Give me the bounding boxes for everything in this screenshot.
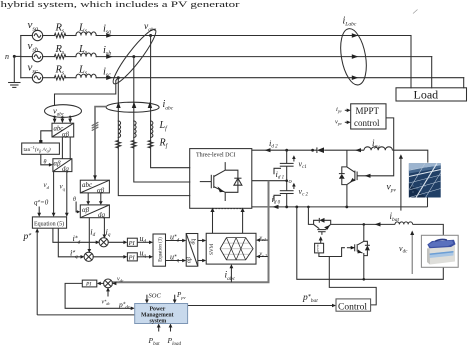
PV panel image — [409, 163, 441, 197]
load drop b — [431, 57, 433, 88]
node dot phase c — [117, 76, 120, 79]
svg-text:Management: Management — [141, 313, 174, 319]
measurement pair v_dc (gray) — [112, 181, 269, 283]
arrow up line a — [148, 102, 153, 108]
inductor L_s phase b — [76, 53, 432, 57]
wire to battery top — [413, 224, 444, 235]
wire i_d — [88, 218, 90, 251]
node n — [13, 55, 21, 58]
inductor L_f line c — [118, 121, 120, 137]
arrow v_pv — [399, 154, 403, 210]
load drop a — [410, 36, 412, 88]
block alphabeta/dq #2 — [80, 205, 109, 218]
arrow i_bat — [375, 222, 381, 226]
battery IGBT Q_b1 — [314, 224, 331, 234]
svg-text:vc1: vc1 — [260, 235, 266, 242]
block Equation (5) — [32, 217, 66, 228]
wire driver to control bus — [319, 248, 345, 257]
wire v_d — [53, 172, 55, 215]
svg-text:MPPT: MPPT — [356, 106, 380, 116]
arrow i_Lb — [352, 54, 359, 59]
connectors abc1 to dq1 — [61, 137, 63, 159]
wire battery bottom rail — [297, 207, 444, 279]
wire sum1 to PI1 — [108, 241, 126, 243]
AC source v_sb — [21, 51, 43, 61]
wire PV panel bottom — [427, 198, 429, 207]
block PI 2 — [127, 253, 137, 261]
block tan-1 — [22, 143, 60, 154]
arrow v_dc (battery side) — [410, 231, 414, 275]
wire i_q — [103, 218, 105, 237]
wire i*_q — [58, 228, 82, 257]
block PI 3 — [82, 280, 97, 287]
resistor R_f line c — [116, 141, 121, 149]
svg-text:SOC: SOC — [149, 293, 162, 300]
wire: converter line a (from phase a dot down to DCI) — [151, 36, 190, 168]
svg-text:vdc: vdc — [117, 277, 124, 284]
arrow input i_pv — [345, 109, 351, 113]
block abc/alphabeta #1 — [52, 123, 74, 137]
gate dotted line under DCI — [210, 208, 244, 234]
arrow P_bat up — [157, 324, 161, 332]
wire p*_dc path — [65, 283, 133, 308]
wire rail to PV panel — [392, 150, 427, 162]
inductor L_f line b — [134, 121, 136, 137]
block PI 1 — [127, 238, 137, 246]
load drop c — [463, 78, 465, 88]
wire u*_q — [166, 260, 185, 262]
block Power Management system — [135, 304, 188, 325]
arrow P_pv — [173, 295, 177, 304]
block dq/alphabeta — [186, 234, 198, 267]
arrow up line b — [132, 102, 137, 108]
svg-text:Three-level DCI: Three-level DCI — [196, 153, 235, 159]
arrow v_c2 — [292, 183, 296, 189]
summing junction v_dc — [104, 279, 113, 288]
arrow up line c — [116, 102, 121, 108]
arrow SOC — [145, 295, 149, 304]
svg-text:Equation (5): Equation (5) — [34, 220, 64, 227]
node dot phase a — [149, 34, 152, 37]
driver box — [315, 243, 324, 253]
svg-text:PI: PI — [128, 255, 136, 262]
current probe ellipse i_abc — [106, 102, 159, 112]
current arrow i_sc — [106, 75, 113, 80]
bracket i_d1 — [274, 168, 281, 174]
stray mark — [413, 10, 418, 14]
measurement cable i_abc to dq frame — [95, 107, 106, 180]
resistor R_s phase c — [43, 76, 76, 80]
wire to SVM bottom input — [198, 260, 204, 262]
svg-text:Equation (3): Equation (3) — [158, 237, 163, 262]
arrow i_Lc — [352, 75, 359, 80]
resistor R_f line b — [131, 141, 136, 149]
svg-text:q⁎=0: q⁎=0 — [34, 199, 49, 207]
node dot rail/cap — [285, 149, 288, 152]
battery box — [421, 235, 458, 267]
svg-text:αβ: αβ — [62, 131, 70, 138]
wire i*_d — [53, 228, 98, 242]
arrow i_pv on rail — [355, 148, 361, 152]
arrows ellipse to abc/ab block — [53, 119, 72, 124]
voltage probe ellipse v_abc (tilted) — [109, 26, 161, 88]
tap v_c2 to SVM — [256, 255, 268, 259]
svg-text:n: n — [5, 52, 9, 61]
arrow into sum from right (v_dc) — [112, 282, 116, 286]
wire: v_abc tap from phase c — [55, 78, 119, 105]
svg-text:dq: dq — [191, 239, 197, 245]
body diode Q_b2 — [364, 241, 370, 255]
wire battery rail — [331, 223, 395, 225]
battery image — [427, 239, 456, 264]
current arrow i_sa — [106, 33, 113, 38]
svg-text:Load: Load — [414, 87, 439, 101]
svg-text:control: control — [354, 118, 380, 128]
arrow v*_dc into sum bottom — [106, 287, 110, 296]
capacitor C1 — [280, 150, 294, 191]
wire v_q — [66, 172, 68, 215]
arrow input v_pv — [345, 121, 351, 125]
summing junction 1 (d-axis) — [99, 238, 108, 247]
diode D_b1 (antiparallel) — [314, 218, 331, 225]
wire i_abc tap to SVM bottom — [230, 264, 234, 282]
svg-text:pwm: pwm — [316, 244, 320, 251]
connectors abc2 to dq2 — [87, 193, 89, 203]
body diode Q_pv — [339, 167, 347, 185]
svg-text:αβ: αβ — [97, 186, 105, 194]
resistor R_s phase a — [43, 33, 76, 37]
gate wire from Control — [329, 257, 376, 305]
arrow i_d0 on rail — [273, 205, 279, 209]
svg-text:PI: PI — [128, 240, 136, 247]
wire to SVM top input — [198, 240, 204, 242]
current probe ellipse i_Labc — [337, 27, 371, 87]
wire u_q — [137, 256, 151, 258]
inductor L_f line a — [151, 121, 153, 137]
block abc/alphabeta #2 — [80, 180, 109, 193]
gate arrow into Q_b1 — [319, 236, 323, 243]
bracket i_d0 — [274, 195, 281, 201]
inductor L_s phase c — [76, 74, 464, 78]
wire DC+ rail — [252, 149, 317, 151]
wire theta to dq #1 — [41, 154, 51, 165]
svg-text:Power: Power — [150, 306, 166, 312]
wire p*_bat to Control — [188, 305, 334, 307]
inductor L_s phase a — [76, 32, 411, 36]
svg-text:dq: dq — [98, 211, 106, 219]
diode D1 inside DCI — [234, 178, 242, 185]
arrow i_d2 on rail — [265, 148, 271, 152]
AC source v_sa — [21, 30, 43, 40]
svg-text:system: system — [150, 319, 167, 325]
wire sum to PI3 — [99, 282, 104, 284]
svg-text:SVM: SVM — [209, 243, 215, 255]
load box — [396, 88, 467, 101]
wire p* from PM — [37, 314, 135, 316]
cable hatch marks — [92, 123, 98, 131]
boost switch Q_pv — [347, 150, 357, 207]
node dot Q_b2 drain — [363, 223, 366, 226]
summing junction 2 (q-axis) — [84, 252, 93, 261]
node o midpoint wire — [252, 180, 287, 182]
AC source v_sc — [21, 73, 43, 83]
wire to tan block — [41, 131, 52, 141]
svg-text:αβ: αβ — [82, 206, 90, 214]
voltage probe ellipse v_abc (lower) — [45, 105, 82, 118]
wire: left bus vertical — [20, 36, 22, 78]
wire: converter line b — [134, 57, 190, 182]
diode D_pv on rail — [317, 147, 324, 153]
wire: converter line c — [118, 78, 189, 196]
block Equation (3) — [153, 234, 166, 266]
wire theta 2 — [76, 202, 78, 212]
wire q*=0 — [38, 207, 40, 215]
node dot rail/diode — [311, 149, 314, 152]
svg-text:αβ: αβ — [54, 160, 62, 167]
svg-text:dq: dq — [62, 166, 69, 173]
block MPPT control — [351, 104, 386, 129]
svg-text:θ: θ — [73, 197, 76, 203]
node dot boost switch — [345, 206, 348, 209]
ground — [9, 56, 20, 87]
IGBT U1 inside DCI — [200, 162, 238, 201]
svg-text:vc 2: vc 2 — [260, 252, 267, 259]
current arrow i_sb — [106, 54, 113, 59]
node dot Q_b2 source — [363, 278, 366, 281]
svg-text:Control: Control — [338, 302, 367, 312]
svg-text:abc: abc — [82, 181, 93, 189]
arrow into abc2 — [93, 175, 97, 179]
inductor L_bat — [395, 222, 413, 224]
block Control — [336, 299, 371, 311]
block SVM — [206, 233, 256, 264]
svg-text:θ: θ — [44, 160, 47, 166]
wire u_d — [137, 241, 151, 243]
svg-text:hybrid system, which includ: hybrid system, which includes a PV gener… — [1, 0, 240, 9]
node dot battery IGBT branch — [307, 206, 310, 209]
wire p* up into Equation5 — [36, 230, 38, 315]
svg-text:αβ: αβ — [187, 257, 193, 263]
arrow P_load up — [169, 324, 173, 332]
gate wire from MPPT — [357, 118, 394, 178]
inductor L_pv — [364, 147, 392, 150]
arrow v_c1 — [292, 155, 296, 161]
resistor R_s phase b — [43, 54, 76, 58]
resistor R_f line a — [148, 141, 153, 149]
wire u*_d — [166, 240, 185, 242]
tap v_c1 to SVM — [256, 238, 268, 242]
arrow i_La — [352, 33, 359, 38]
node dot cap bottom — [285, 206, 288, 209]
node dot battery return — [295, 206, 298, 209]
node dot phase b — [132, 55, 135, 58]
wire sum2 to PI2 — [93, 256, 126, 258]
wire rail down to battery IGBT — [308, 207, 313, 225]
SVM hexagon mesh — [220, 238, 253, 260]
capacitor C2 — [280, 191, 294, 207]
battery switch Q_b2 — [347, 224, 364, 279]
block alphabeta/dq #1 — [53, 159, 72, 172]
wire DC- rail — [252, 206, 428, 208]
block Three-level DCI — [190, 149, 252, 209]
